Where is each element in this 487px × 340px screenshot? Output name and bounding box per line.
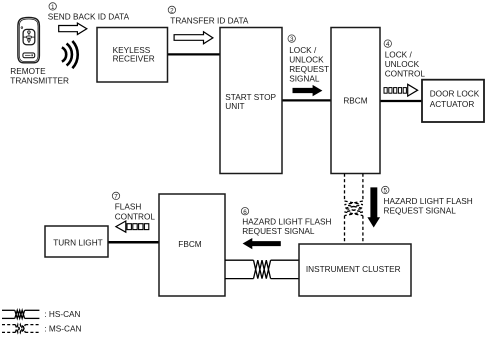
wire RBCM to door lock actuator bbox=[380, 100, 422, 102]
wire start stop unit to RBCM bbox=[282, 99, 331, 101]
svg-text:TRANSMITTER: TRANSMITTER bbox=[10, 77, 69, 86]
circled 4 bbox=[384, 40, 391, 48]
box INSTRUMENT CLUSTER bbox=[299, 244, 411, 296]
wire turn light to FBCM bbox=[108, 241, 159, 244]
fob lock button icon bbox=[28, 31, 31, 34]
transmitter radio waves bbox=[62, 41, 78, 68]
svg-text:5: 5 bbox=[384, 188, 388, 195]
box DOOR LOCK ACTUATOR bbox=[422, 80, 484, 122]
legend MS-CAN symbol bbox=[2, 325, 39, 333]
svg-text:HAZARD LIGHT FLASH: HAZARD LIGHT FLASH bbox=[384, 197, 473, 206]
box KEYLESS RECEIVER bbox=[97, 28, 168, 83]
circled 1 bbox=[49, 3, 56, 11]
svg-text:3: 3 bbox=[290, 36, 294, 43]
label LOCK / UNLOCK REQUEST SIGNAL bbox=[289, 46, 329, 84]
fob LED bbox=[21, 27, 23, 29]
svg-text:REMOTE: REMOTE bbox=[10, 67, 46, 76]
fob button panel bbox=[23, 29, 35, 44]
box RBCM bbox=[331, 28, 380, 174]
svg-text:LOCK /: LOCK / bbox=[385, 50, 413, 59]
svg-text:ACTUATOR: ACTUATOR bbox=[430, 100, 475, 109]
svg-text:1: 1 bbox=[51, 4, 55, 11]
solid arrow 3 (lock/unlock request signal) bbox=[293, 85, 323, 96]
svg-text:INSTRUMENT CLUSTER: INSTRUMENT CLUSTER bbox=[306, 265, 401, 274]
solid arrow 5 down (hazard light flash request) bbox=[367, 187, 380, 227]
box START STOP UNIT bbox=[220, 28, 282, 174]
svg-text:2: 2 bbox=[170, 8, 174, 15]
svg-text:UNLOCK: UNLOCK bbox=[385, 60, 420, 69]
svg-text:SIGNAL: SIGNAL bbox=[289, 75, 320, 84]
outline arrow 1 (send back id data) bbox=[59, 23, 87, 34]
outline arrow 2 (transfer id data) bbox=[174, 32, 213, 44]
segmented arrow 4 (lock/unlock control, open head, 5 squares) bbox=[384, 84, 418, 96]
svg-text:START STOP: START STOP bbox=[225, 93, 276, 102]
svg-text:6: 6 bbox=[243, 209, 247, 216]
svg-text:CONTROL: CONTROL bbox=[115, 213, 156, 222]
MS-CAN twist bbox=[345, 201, 363, 216]
svg-text:: HS-CAN: : HS-CAN bbox=[44, 310, 80, 319]
box TURN LIGHT bbox=[45, 226, 108, 257]
segmented arrow 7 (flash control, open head left, 4 squares) bbox=[116, 221, 149, 232]
svg-text:TRANSFER ID DATA: TRANSFER ID DATA bbox=[170, 17, 249, 26]
svg-text:7: 7 bbox=[114, 194, 118, 201]
legend HS-CAN symbol bbox=[2, 310, 39, 318]
HS-CAN twist bbox=[254, 260, 271, 278]
fob unlock button icon bbox=[28, 39, 31, 42]
svg-text:DOOR LOCK: DOOR LOCK bbox=[430, 90, 480, 99]
label HAZARD LIGHT FLASH REQUEST SIGNAL (5) bbox=[384, 197, 473, 215]
svg-text:LOCK /: LOCK / bbox=[289, 46, 317, 55]
circled 2 bbox=[168, 6, 175, 14]
circled 6 bbox=[241, 208, 248, 216]
svg-text:RBCM: RBCM bbox=[343, 97, 367, 106]
remote transmitter key fob icon bbox=[18, 18, 40, 63]
svg-text:REQUEST SIGNAL: REQUEST SIGNAL bbox=[384, 206, 457, 215]
label HAZARD LIGHT FLASH REQUEST SIGNAL (6) bbox=[242, 218, 331, 236]
svg-text:UNIT: UNIT bbox=[225, 102, 244, 111]
MS-CAN dashed bus RBCM to instrument cluster (vertical) bbox=[345, 174, 363, 245]
svg-text:REQUEST: REQUEST bbox=[289, 65, 329, 74]
circled 3 bbox=[288, 35, 295, 43]
wire keyless receiver to start stop unit bbox=[168, 53, 221, 55]
fob panic button bbox=[23, 53, 35, 58]
svg-text:KEYLESS: KEYLESS bbox=[113, 46, 151, 55]
svg-text:SEND BACK ID DATA: SEND BACK ID DATA bbox=[48, 13, 130, 22]
svg-text:4: 4 bbox=[386, 41, 390, 48]
HS-CAN bus FBCM to instrument cluster (horizontal) bbox=[225, 260, 299, 278]
svg-text:FLASH: FLASH bbox=[115, 202, 142, 211]
svg-text:CONTROL: CONTROL bbox=[385, 70, 426, 79]
svg-text:: MS-CAN: : MS-CAN bbox=[44, 324, 81, 333]
svg-text:HAZARD LIGHT FLASH: HAZARD LIGHT FLASH bbox=[242, 218, 331, 227]
label LOCK / UNLOCK CONTROL bbox=[385, 50, 426, 78]
svg-text:UNLOCK: UNLOCK bbox=[289, 56, 324, 65]
label FLASH CONTROL bbox=[115, 202, 156, 221]
svg-text:FBCM: FBCM bbox=[178, 240, 202, 249]
svg-text:RECEIVER: RECEIVER bbox=[113, 55, 155, 64]
svg-text:TURN LIGHT: TURN LIGHT bbox=[53, 239, 102, 248]
solid arrow 6 left (hazard light flash request) bbox=[243, 238, 281, 249]
circled 7 bbox=[112, 192, 119, 200]
box FBCM bbox=[159, 194, 225, 296]
circled 5 bbox=[382, 186, 389, 194]
svg-text:REQUEST SIGNAL: REQUEST SIGNAL bbox=[242, 227, 315, 236]
